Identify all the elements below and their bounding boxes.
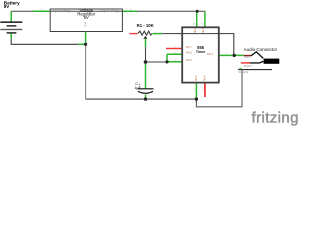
svg-text:RIGHT: RIGHT	[244, 64, 252, 68]
svg-text:5V: 5V	[84, 15, 89, 20]
svg-text:Timer: Timer	[196, 50, 206, 54]
svg-text:9V: 9V	[4, 4, 9, 9]
svg-text:Pin 1: Pin 1	[195, 75, 198, 81]
svg-text:Pin 8: Pin 8	[194, 27, 197, 33]
svg-text:+: +	[139, 83, 141, 87]
svg-text:Pin 2: Pin 2	[186, 59, 192, 62]
svg-text:output voltage: output voltage	[99, 9, 119, 13]
svg-text:SLEEVE: SLEEVE	[238, 70, 248, 74]
svg-text:4: 4	[202, 23, 205, 25]
svg-text:3: 3	[130, 9, 132, 11]
svg-text:gnd: gnd	[83, 21, 87, 26]
svg-text:fritzing: fritzing	[252, 109, 299, 126]
svg-text:Pin 6: Pin 6	[186, 52, 192, 55]
svg-text:Pin 7: Pin 7	[186, 46, 192, 49]
svg-text:R1 - 10K: R1 - 10K	[137, 23, 155, 28]
svg-text:input voltage: input voltage	[53, 9, 71, 13]
svg-text:Pin 4: Pin 4	[202, 27, 205, 33]
svg-text:Audio Connector: Audio Connector	[244, 47, 278, 52]
svg-text:8: 8	[193, 23, 196, 25]
svg-text:Pin 5: Pin 5	[204, 75, 207, 81]
svg-text:LEFT: LEFT	[245, 55, 252, 59]
svg-text:3: 3	[226, 53, 228, 55]
svg-text:Pin 3: Pin 3	[207, 53, 213, 56]
svg-text:1: 1	[41, 9, 43, 11]
